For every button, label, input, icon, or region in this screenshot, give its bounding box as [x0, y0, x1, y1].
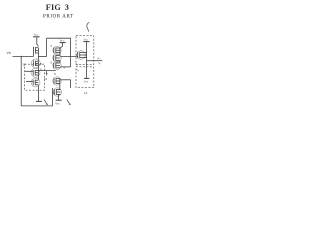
dashed box 14 bottom: [76, 67, 94, 88]
svg-text:VO: VO: [97, 56, 101, 60]
wire vertical left bus x21: [20, 56, 22, 106]
power VDD terminal 1 bar: [33, 36, 40, 38]
transistor Q7 stubs: [56, 62, 60, 64]
wire VDD3 stem / output vertical: [86, 42, 88, 79]
ground VSS bar right: [84, 77, 89, 79]
power VDD terminal 3 bar: [83, 41, 89, 43]
transistor Q4 channel: [34, 80, 36, 85]
ground VSS bar mid: [56, 99, 62, 101]
transistor Q9 circle: [53, 88, 61, 96]
wire Vin input: [13, 55, 34, 57]
transistor Q9 channel: [55, 89, 57, 95]
transistor Q9 circle: [77, 51, 86, 60]
wire VDD2 stem: [62, 43, 64, 47]
wire box output to mid gate: [38, 70, 55, 72]
transistor Q8 circle: [53, 77, 61, 85]
wire VDD2 jog: [60, 46, 63, 48]
transistor Q6 circle: [53, 54, 61, 62]
wire Q8-Q9 link: [59, 79, 61, 90]
transistor Q7 gate bar: [53, 62, 55, 68]
svg-text:VDD: VDD: [34, 32, 39, 36]
power VDD terminal 2 bar: [60, 42, 66, 44]
transistor Q6 channel: [55, 55, 57, 61]
wire VDD1 stem: [37, 37, 39, 47]
transistor Q1 channel: [35, 47, 37, 54]
transistor Q3 stubs: [35, 69, 38, 71]
transistor Q4 stubs: [35, 79, 38, 81]
wire top span: [47, 37, 71, 39]
transistor Q8 gate bar: [53, 78, 55, 84]
svg-text:12: 12: [22, 62, 26, 66]
dashed box 12: [25, 64, 45, 90]
svg-text:VIN: VIN: [7, 51, 12, 55]
transistor Q7 circle: [53, 61, 61, 69]
wire Q6-Q7 chain: [59, 60, 61, 63]
leader curl 10: [87, 22, 89, 31]
wire tap y67: [60, 66, 71, 68]
transistor Q3 gate lead: [25, 70, 33, 72]
svg-text:a: a: [50, 44, 52, 48]
svg-text:N: N: [50, 61, 52, 65]
transistor Q9 channel: [79, 52, 81, 58]
svg-text:VDD: VDD: [60, 39, 65, 43]
transistor Q4 circle: [31, 78, 40, 87]
svg-text:Tr: Tr: [76, 69, 78, 73]
transistor Q3 channel: [34, 70, 36, 75]
wire tap y80: [60, 79, 71, 81]
wire Q4 source stem: [37, 85, 39, 102]
transistor Q9 stubs: [56, 89, 60, 91]
wire dropper x70 low: [70, 80, 72, 88]
transistor Q5 gate bar: [53, 47, 55, 53]
svg-text:PRIOR ART: PRIOR ART: [43, 14, 74, 19]
transistor Q8 channel: [55, 78, 57, 84]
svg-text:14: 14: [84, 91, 88, 95]
transistor Q9 gate bar: [53, 89, 55, 95]
svg-text:VDD: VDD: [84, 38, 89, 42]
dashed box 10 top: [76, 36, 94, 65]
wire output to edge: [87, 60, 103, 62]
wire Q9 gate lead: [53, 92, 55, 94]
label out tick: [99, 63, 101, 65]
ground bar under Q4: [36, 100, 42, 102]
node junction dot at x21: [21, 56, 22, 57]
transistor Q2 stubs: [36, 60, 39, 62]
svg-text:16: 16: [44, 77, 48, 81]
wire Q2 right vertical: [37, 61, 39, 70]
transistor Q2 channel: [35, 61, 37, 66]
transistor Q6 gate bar: [53, 55, 55, 61]
svg-text:FIG 3: FIG 3: [46, 3, 69, 12]
transistor Q1 gate bar: [33, 47, 35, 57]
transistor Q1 bulk stub: [36, 49, 39, 51]
wire stage1 output tap: [60, 55, 78, 57]
wire bottom rail: [21, 105, 52, 107]
wire Q1 drain-source vertical: [37, 48, 39, 61]
leader arrow 16: [46, 71, 48, 74]
leader slash 14a: [44, 100, 47, 105]
wire node A horizontal: [38, 55, 46, 57]
wire Q3 right vertical: [37, 70, 39, 80]
transistor Q4 gate bar: [32, 80, 34, 86]
transistor Q1 source stub: [36, 52, 39, 54]
transistor Q5 circle: [53, 46, 61, 54]
transistor Q3 circle: [31, 68, 40, 77]
transistor Q9 gate bar: [77, 52, 79, 58]
wire node A riser: [46, 38, 48, 56]
wire right dropper x70: [70, 38, 72, 67]
transistor Q7 channel: [55, 63, 57, 69]
transistor Q2 circle: [31, 59, 40, 68]
svg-text:VSS: VSS: [84, 80, 89, 84]
leader slash 14b: [67, 100, 70, 105]
transistor Q5 channel: [55, 48, 57, 54]
wire rail right riser: [52, 88, 54, 106]
transistor Q6 stubs: [56, 55, 60, 57]
transistor Q3 gate bar: [32, 70, 34, 76]
transistor Q4 gate lead: [26, 80, 33, 82]
transistor Q2 gate bar: [33, 60, 35, 66]
transistor Q8 stubs: [56, 78, 60, 80]
svg-text:N: N: [63, 65, 65, 69]
svg-text:VSS: VSS: [55, 101, 60, 105]
transistor Q5 stubs: [56, 47, 60, 49]
transistor Q9 stubs: [80, 52, 87, 54]
wire Q5-Q6 chain: [59, 48, 61, 56]
svg-text:Tr: Tr: [76, 62, 78, 66]
svg-text:N: N: [54, 72, 56, 76]
wire Q9 source stem: [58, 94, 60, 100]
transistor Q1 drain stub: [36, 47, 39, 49]
